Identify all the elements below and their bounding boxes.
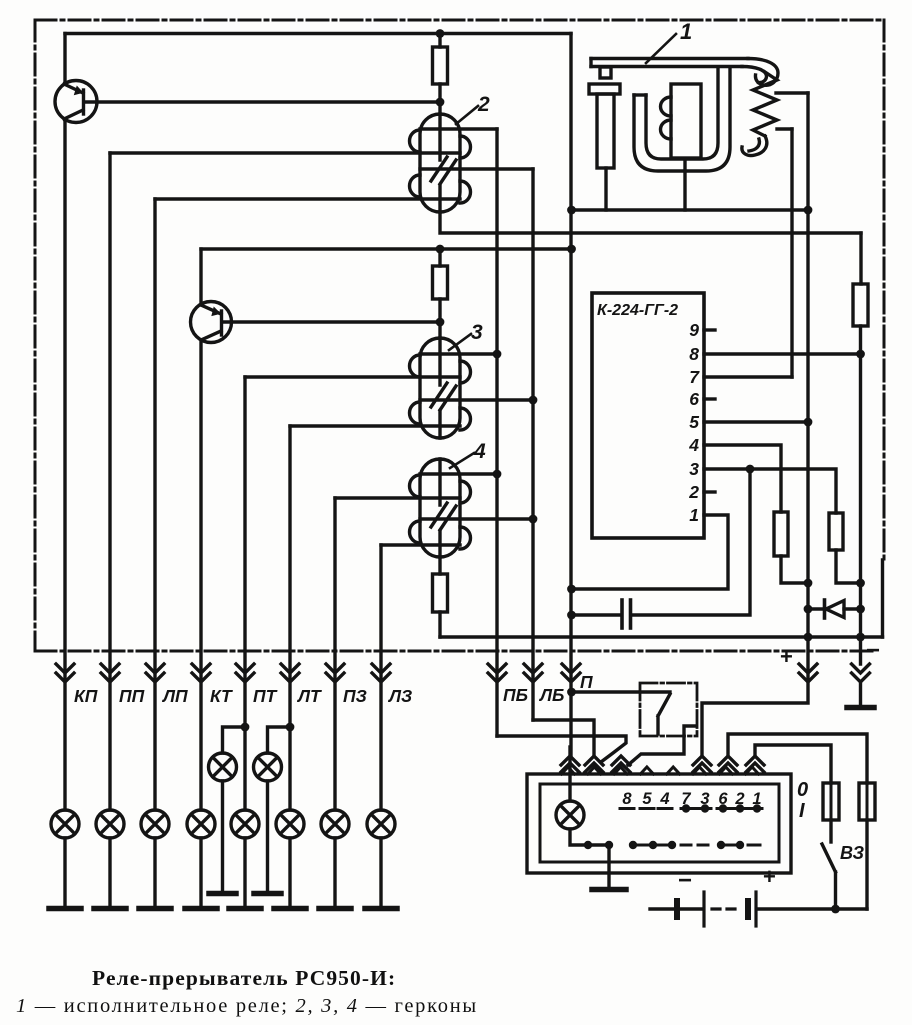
wire P junction bbox=[567, 688, 576, 697]
svg-text:КП: КП bbox=[74, 686, 98, 706]
terminal PT bbox=[236, 664, 254, 682]
lamp LZ bbox=[365, 810, 397, 909]
wire core down bbox=[683, 162, 686, 210]
bus C vertical x=533 bbox=[531, 169, 534, 720]
wire LP column bbox=[153, 199, 156, 810]
terminal minus bbox=[852, 664, 870, 682]
block lamp bbox=[556, 801, 584, 829]
svg-text:2: 2 bbox=[477, 93, 490, 116]
node chain-R2 bbox=[436, 245, 445, 254]
svg-text:4: 4 bbox=[688, 435, 699, 455]
wire VT1 emitter up bbox=[63, 34, 66, 85]
svg-text:1 — исполнительное реле; 2, 3,: 1 — исполнительное реле; 2, 3, 4 — герко… bbox=[16, 995, 478, 1017]
pin 3 wire bbox=[704, 469, 836, 513]
chevron 702 bbox=[693, 756, 711, 772]
wire minus bus y=637 bbox=[440, 635, 883, 638]
pin 6 bbox=[704, 397, 715, 400]
frame right lower solid part bbox=[881, 560, 884, 637]
node rail-615 bbox=[567, 611, 576, 620]
svg-text:ЛТ: ЛТ bbox=[296, 686, 322, 706]
magnetic yoke U bbox=[634, 69, 730, 171]
terminal KP bbox=[56, 664, 74, 682]
wire LB to block bbox=[533, 720, 594, 754]
svg-text:3: 3 bbox=[689, 459, 699, 479]
node pin5-808 bbox=[804, 418, 813, 427]
svg-text:1: 1 bbox=[680, 19, 692, 44]
resistor R4 right bbox=[853, 284, 868, 326]
lamp PZ bbox=[319, 810, 351, 909]
lamp KP bbox=[49, 810, 81, 909]
wire post bus y=210 bbox=[572, 208, 808, 211]
wire VT2 base to chain bbox=[222, 320, 440, 323]
label 1 leader bbox=[646, 34, 676, 63]
switch block outer bbox=[527, 774, 791, 873]
switch block inner bbox=[540, 784, 779, 862]
chevron 594 bbox=[585, 756, 603, 772]
resistor R1 top of chain bbox=[433, 47, 448, 84]
capacitor C1 bbox=[571, 613, 620, 616]
node R1-base bbox=[436, 98, 445, 107]
svg-text:I: I bbox=[799, 800, 805, 822]
svg-text:3: 3 bbox=[471, 321, 483, 344]
lamp KT bbox=[185, 810, 217, 909]
wire gerkon2 bottom to right bus y=233 bbox=[440, 212, 861, 233]
wire VT1 collector down (KP column) bbox=[63, 119, 66, 810]
IC K-224-GG-2 bbox=[592, 293, 704, 538]
spring zigzag bbox=[753, 72, 777, 136]
wire LT column bbox=[288, 426, 291, 810]
lamp LP bbox=[139, 810, 171, 909]
minus ground bbox=[859, 682, 862, 705]
repeater lamp LT tap bbox=[254, 723, 295, 894]
label 4 bbox=[450, 453, 474, 468]
armature bar bbox=[591, 57, 748, 60]
reed switch 4 (gerkon) bbox=[335, 459, 533, 557]
fuse FU1 bbox=[823, 783, 839, 820]
wire rail right drop x=571 bbox=[569, 34, 572, 758]
svg-text:ЛП: ЛП bbox=[161, 686, 188, 706]
node rail-249 bbox=[567, 245, 576, 254]
wire spring tap upper bbox=[776, 91, 808, 94]
node g3-B bus bbox=[493, 350, 502, 359]
fuse FU2 bbox=[859, 783, 875, 820]
svg-text:6: 6 bbox=[689, 389, 699, 409]
repeater lamp PT tap bbox=[209, 723, 250, 894]
pin 5 wire bbox=[704, 420, 808, 423]
node 808-210 bbox=[804, 206, 813, 215]
transistor VT1 bbox=[55, 81, 97, 123]
wire 233 corner to resistor bbox=[859, 233, 862, 284]
node rail-589 bbox=[567, 585, 576, 594]
svg-text:П: П bbox=[580, 672, 593, 692]
wire relay top tap x=808 down to plus bbox=[806, 93, 809, 680]
node g3-C bus bbox=[529, 396, 538, 405]
wire post down bbox=[604, 168, 607, 210]
svg-text:+: + bbox=[763, 864, 776, 889]
switch blade in dashdot box bbox=[658, 694, 670, 734]
terminal LT bbox=[281, 664, 299, 682]
svg-text:ЛЗ: ЛЗ bbox=[387, 686, 412, 706]
label 3 bbox=[449, 334, 471, 350]
dash-dot box bbox=[640, 683, 697, 736]
chevron P-block bbox=[561, 756, 579, 772]
pin 1 wire bbox=[571, 515, 728, 589]
bus B vertical x=497 bbox=[495, 129, 498, 736]
wire fuse1 to block bbox=[755, 745, 831, 783]
svg-text:5: 5 bbox=[689, 412, 699, 432]
terminal KT bbox=[192, 664, 210, 682]
node 860-583 bbox=[856, 579, 865, 588]
bottom terminals chevrons and labels bbox=[56, 664, 870, 682]
terminal PB bbox=[488, 664, 506, 682]
node pin8-860 bbox=[856, 350, 865, 359]
transistor VT2 bbox=[191, 302, 232, 343]
pin numerals bbox=[688, 320, 700, 525]
pin 2 bbox=[704, 490, 715, 493]
block top pins bbox=[562, 767, 759, 774]
pin 8 wire bbox=[704, 352, 860, 355]
node 808-583 bbox=[804, 579, 813, 588]
diode VD1 bbox=[808, 607, 822, 610]
block contact row 0 numerals bbox=[622, 790, 761, 808]
label 2 bbox=[456, 106, 478, 124]
pin 9 bbox=[704, 328, 715, 331]
node g4-C bus bbox=[529, 515, 538, 524]
block ground bbox=[592, 887, 626, 893]
node diode-808 bbox=[804, 605, 813, 614]
wire PZ column bbox=[333, 498, 336, 810]
spring lower hook bbox=[742, 136, 767, 156]
armature nub bbox=[600, 67, 611, 78]
svg-text:КТ: КТ bbox=[210, 686, 233, 706]
core with coil bbox=[671, 84, 701, 158]
node rail-210 bbox=[567, 206, 576, 215]
chevron 728 bbox=[719, 756, 737, 772]
lamp LT bbox=[274, 810, 306, 909]
svg-text:Реле-прерыватель РС950-И:: Реле-прерыватель РС950-И: bbox=[92, 966, 396, 990]
svg-text:4: 4 bbox=[473, 440, 486, 463]
wire LZ column bbox=[379, 545, 382, 810]
node rail-R1 bbox=[436, 29, 445, 38]
battery GB bbox=[650, 907, 674, 910]
wire top rail y=33 bbox=[65, 32, 571, 35]
frame border dash-dot bbox=[35, 20, 884, 651]
svg-text:9: 9 bbox=[689, 320, 699, 340]
wire plus to block bbox=[702, 682, 808, 756]
terminal plus bbox=[799, 664, 817, 682]
node 808-637 bbox=[804, 633, 813, 642]
wire VT2 emitter up bbox=[199, 249, 202, 305]
switch VZ bbox=[829, 820, 832, 842]
node pin3-750 bbox=[746, 465, 755, 474]
svg-text:ЛБ: ЛБ bbox=[538, 685, 564, 705]
chevron 755 bbox=[746, 756, 764, 772]
svg-text:ВЗ: ВЗ bbox=[840, 843, 865, 863]
svg-text:4: 4 bbox=[659, 790, 669, 808]
svg-text:8: 8 bbox=[622, 790, 632, 808]
reed switch 2 (gerkon) bbox=[110, 114, 533, 212]
svg-text:ПБ: ПБ bbox=[503, 685, 528, 705]
wire VT2 collector down (KT column) bbox=[199, 340, 202, 810]
block contact row I bbox=[633, 844, 760, 847]
reed switch 3 (gerkon) bbox=[245, 338, 533, 438]
resistor R5 (pin4) bbox=[774, 512, 788, 556]
svg-text:+: + bbox=[780, 644, 793, 669]
terminal PP bbox=[101, 664, 119, 682]
resistor R2 mid chain bbox=[433, 266, 448, 299]
svg-text:7: 7 bbox=[689, 367, 700, 387]
wire relay tap to pin7 x=792 bbox=[790, 129, 793, 377]
node g4-B bus bbox=[493, 470, 502, 479]
wire fuse2 to block bbox=[728, 734, 867, 783]
wire spring tap lower bbox=[777, 127, 792, 130]
contact post bbox=[589, 84, 620, 94]
node diode-860 bbox=[856, 605, 865, 614]
resistor R6 (pin3) bbox=[829, 513, 843, 550]
svg-text:ПТ: ПТ bbox=[253, 686, 278, 706]
terminal LP bbox=[146, 664, 164, 682]
node R2-base VT2 bbox=[436, 318, 445, 327]
wire PB to block bbox=[497, 736, 626, 762]
svg-text:0: 0 bbox=[797, 779, 808, 801]
lamp PT bbox=[229, 810, 261, 909]
svg-text:5: 5 bbox=[642, 790, 652, 808]
node 860-637 bbox=[856, 633, 865, 642]
svg-text:8: 8 bbox=[689, 344, 699, 364]
wire PP column bbox=[108, 153, 111, 810]
wire switch output bbox=[628, 726, 695, 765]
svg-text:ПЗ: ПЗ bbox=[343, 686, 367, 706]
wire emitter VT2 rail y=249 bbox=[201, 247, 572, 250]
block top tall chevrons bbox=[561, 756, 764, 772]
chevron 621 bbox=[612, 756, 630, 772]
svg-text:ПП: ПП bbox=[119, 686, 145, 706]
svg-text:1: 1 bbox=[689, 505, 699, 525]
wire P to switch contact bbox=[571, 690, 670, 693]
lamp PP bbox=[94, 810, 126, 909]
terminal P bbox=[562, 664, 580, 682]
wire VT1 base to chain bbox=[84, 100, 440, 103]
pin 4 wire bbox=[704, 445, 781, 512]
resistor R3 bottom of chain bbox=[433, 574, 448, 612]
terminal LB bbox=[524, 664, 542, 682]
terminal PZ bbox=[326, 664, 344, 682]
svg-text:−: − bbox=[866, 637, 880, 664]
svg-text:2: 2 bbox=[688, 482, 699, 502]
svg-text:К-224-ГГ-2: К-224-ГГ-2 bbox=[597, 302, 678, 319]
relay 1 assembly bbox=[589, 34, 808, 210]
wire P into block bbox=[568, 747, 571, 801]
pin 7 wire bbox=[704, 375, 792, 378]
svg-text:−: − bbox=[678, 867, 692, 894]
wire PT column bbox=[243, 377, 246, 810]
terminal LZ bbox=[372, 664, 390, 682]
